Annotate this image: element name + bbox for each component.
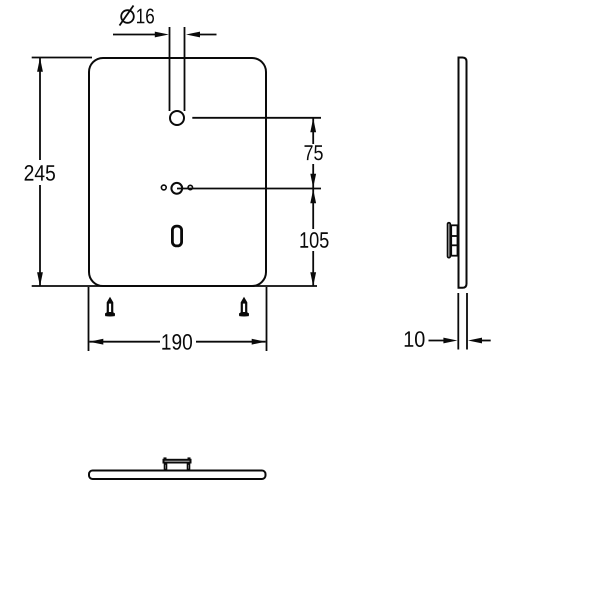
extension line from hole to 75 dimension xyxy=(192,117,321,119)
extension line top for 245 xyxy=(32,57,92,59)
bottom view window leg right xyxy=(188,464,190,470)
mounting pin right xyxy=(239,297,249,317)
front view plate outline xyxy=(89,58,266,286)
dimension 75 upper arrow xyxy=(310,118,316,144)
label 245 xyxy=(25,165,55,181)
side view connector cap xyxy=(448,223,451,258)
extension line right of hole xyxy=(184,27,186,111)
bottom view window leg left xyxy=(165,464,167,470)
dimension line 245 lower segment with arrow xyxy=(37,185,43,286)
small hole right xyxy=(188,185,192,189)
bottom view flange tab left xyxy=(164,457,167,459)
sensor window xyxy=(172,226,181,246)
bottom view flange tab right xyxy=(188,457,191,459)
dimension line 190 right segment xyxy=(196,339,266,345)
side view connector body xyxy=(451,225,457,255)
mounting pin left xyxy=(105,297,115,317)
dimension line 190 left segment xyxy=(89,339,160,345)
bottom view plate bar xyxy=(89,471,266,480)
label Ø16 diameter symbol xyxy=(120,6,134,26)
dimension line Ø16 left segment xyxy=(113,32,169,38)
extension line left for 10 xyxy=(457,293,459,350)
leader line from center holes xyxy=(177,188,321,190)
side view plate outline xyxy=(459,58,467,288)
dimension 105 upper arrow xyxy=(310,189,316,229)
side view connector divider lower xyxy=(451,244,458,246)
bottom view window flange xyxy=(164,460,191,463)
center hole xyxy=(171,183,182,194)
bottom extension line shared by 245 and 105 xyxy=(32,285,317,287)
dimension 75 lower arrow xyxy=(310,164,316,188)
dimension line 10 left segment xyxy=(429,338,458,344)
label Ø16 digits xyxy=(137,9,154,24)
label 105 xyxy=(300,232,328,248)
side view connector divider upper xyxy=(451,235,458,237)
dimension line 10 right segment xyxy=(468,338,491,344)
label 190 xyxy=(162,334,192,350)
extension line right for 190 xyxy=(266,287,268,351)
extension line right for 10 xyxy=(466,293,468,350)
label 75 xyxy=(305,145,323,160)
label 10 xyxy=(405,331,425,347)
dimension line 245 upper segment with arrow xyxy=(37,58,43,160)
top hole Ø16 xyxy=(170,111,184,125)
dimension line Ø16 right segment xyxy=(186,32,217,38)
extension line left of hole xyxy=(169,27,171,111)
small hole left xyxy=(161,185,166,190)
extension line left for 190 xyxy=(88,287,90,351)
dimension 105 lower arrow xyxy=(310,251,316,286)
